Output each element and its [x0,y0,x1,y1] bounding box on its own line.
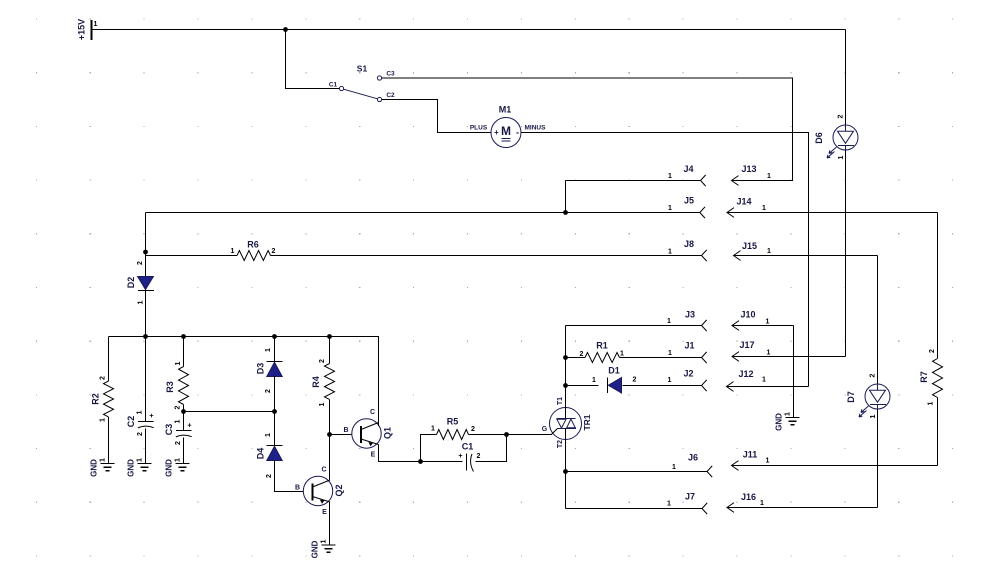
svg-text:-: - [516,128,519,138]
svg-text:1: 1 [870,414,877,418]
svg-text:2: 2 [471,426,475,433]
svg-text:1: 1 [94,21,98,28]
svg-text:2: 2 [175,405,182,409]
svg-text:1: 1 [766,319,770,326]
svg-text:1: 1 [592,377,596,384]
svg-text:1: 1 [838,155,845,159]
connector J16 [727,503,878,513]
svg-text:J13: J13 [741,164,756,174]
connector J15 [734,251,878,261]
svg-text:2: 2 [929,349,936,353]
svg-text:D4: D4 [256,448,266,460]
svg-text:1: 1 [137,458,144,462]
svg-text:1: 1 [175,419,182,423]
svg-text:D6: D6 [814,132,824,144]
connector J1 [702,352,707,363]
svg-text:D3: D3 [256,363,266,375]
svg-text:J15: J15 [742,241,757,251]
connector J4 [701,175,706,186]
svg-text:J1: J1 [684,341,694,351]
svg-text:J6: J6 [688,453,698,463]
svg-text:C1: C1 [329,82,338,89]
resistor R2 [108,337,110,382]
ground GND C3 [176,464,190,471]
svg-text:B: B [295,485,300,492]
switch S1 [339,76,381,102]
svg-text:1: 1 [137,410,144,414]
wire Q1 base [330,434,353,436]
svg-text:1: 1 [928,401,935,405]
resistor R1 [566,357,586,359]
svg-text:C2: C2 [126,416,136,428]
svg-text:C1: C1 [462,442,474,452]
svg-text:GND: GND [127,459,136,477]
resistor R3 [183,337,185,367]
wire J15 down to D7 [877,256,879,385]
led D7 [859,384,890,417]
svg-text:GND: GND [311,540,320,558]
transistor Q1 [352,419,381,448]
svg-text:1: 1 [231,248,235,255]
wire ground rail [109,337,379,423]
svg-text:C3: C3 [386,71,395,78]
svg-text:R4: R4 [311,376,321,388]
node R6 tap [143,250,148,255]
node R1 tap [563,355,568,360]
svg-text:1: 1 [767,248,771,255]
wire J4 drop [565,181,567,213]
svg-text:1: 1 [767,350,771,357]
connector J8 [702,250,707,261]
connector J3 [702,320,707,331]
connector J13 [732,176,793,186]
wire J4 lead [566,180,701,182]
svg-text:C: C [321,467,326,474]
svg-text:1: 1 [667,501,671,508]
wire J3 lead [566,325,702,327]
svg-text:D7: D7 [846,391,856,403]
svg-text:GND: GND [165,459,174,477]
capacitor C3 [176,430,192,432]
svg-text:D2: D2 [126,277,136,289]
svg-text:1: 1 [321,539,328,543]
connector J6 [707,466,712,477]
node TR1/J6 [563,469,568,474]
resistor R7 [933,359,943,398]
ground GND J10 [786,418,800,425]
svg-text:2: 2 [477,453,481,460]
wire J3 bus vertical [565,326,567,408]
node R5/C1 left [418,459,423,464]
svg-text:2: 2 [870,373,877,377]
wire TR1 T2 down [565,439,567,508]
wire S1 C3 to J13 [382,78,793,181]
svg-text:D1: D1 [608,366,620,376]
svg-text:G: G [542,426,548,433]
ground GND Q2 [322,545,336,552]
svg-text:C2: C2 [386,92,395,99]
svg-text:2: 2 [265,389,272,393]
svg-text:J16: J16 [741,492,756,502]
wire Q1 emitter to R5/C1 [379,445,421,462]
diode D2 [138,277,154,290]
wire +15V down to D6 [845,30,847,126]
svg-text:E: E [322,509,327,516]
svg-text:C: C [370,409,375,416]
resistor R6 [146,255,238,257]
wire J14 down to R7 [937,213,939,359]
node R5/C1 right [504,432,509,437]
svg-text:1: 1 [100,418,107,422]
svg-text:2: 2 [838,114,845,118]
wire R3 to D3/D4 node [184,411,275,413]
wire J10 to ground [793,326,795,418]
wire Q1 collector stub [378,422,380,426]
transistor Q2 [303,476,332,505]
connector J10 [732,321,794,331]
svg-text:1: 1 [319,402,326,406]
svg-text:1: 1 [175,361,182,365]
svg-text:1: 1 [667,318,671,325]
wire to S1 contact C1 [286,30,340,89]
svg-text:R1: R1 [596,341,608,351]
diode D3 [274,337,276,362]
wire Q2 collector stub [329,477,331,481]
svg-text:J8: J8 [684,239,694,249]
svg-text:R2: R2 [91,393,101,405]
svg-text:T2: T2 [557,440,564,448]
svg-text:+: + [494,128,499,137]
svg-text:2: 2 [100,376,107,380]
wire J7 lead [566,508,703,510]
connector J12 [727,382,809,392]
wire D7 to J16 [877,409,879,508]
connector J7 [702,503,707,514]
svg-text:Q1: Q1 [383,427,393,439]
svg-text:PLUS: PLUS [470,125,488,132]
svg-text:1: 1 [760,500,764,507]
svg-text:+: + [458,451,463,460]
svg-text:Q2: Q2 [334,484,344,496]
svg-text:+: + [187,421,192,430]
svg-text:1: 1 [766,458,770,465]
svg-text:1: 1 [785,412,792,416]
svg-text:1: 1 [265,348,272,352]
svg-text:1: 1 [100,458,107,462]
node D1 tap [563,383,568,388]
svg-text:R7: R7 [919,371,929,383]
svg-text:1: 1 [431,426,435,433]
resistor R4 [329,337,331,364]
connector J17 [732,352,846,362]
wire M1 MINUS to J12 [521,133,809,387]
connector J5 [700,207,705,218]
svg-text:J3: J3 [685,310,695,320]
svg-text:J7: J7 [685,492,695,502]
svg-text:J10: J10 [740,310,755,320]
svg-text:GND: GND [775,413,784,431]
svg-text:2: 2 [137,261,144,265]
wire Q2 emitter to ground [329,502,331,546]
svg-text:J11: J11 [743,450,758,460]
connector J14 [727,208,938,218]
svg-text:R5: R5 [447,417,459,427]
wire +15V rail [92,29,846,31]
svg-text:J12: J12 [738,369,753,379]
led D6 [827,125,858,158]
svg-text:+15V: +15V [77,19,87,40]
ground GND R2 [101,464,115,471]
motor M1 [491,118,521,148]
svg-text:+: + [149,411,154,420]
svg-text:J17: J17 [739,340,754,350]
diode D4 [274,412,276,446]
node rail R3 [181,334,186,339]
svg-text:1: 1 [762,377,766,384]
resistor R5 [421,435,437,462]
connector J2 [702,380,707,391]
svg-text:1: 1 [265,433,272,437]
capacitor C1 [421,461,463,463]
wire D6 to J17 [845,150,847,357]
svg-text:J2: J2 [683,369,693,379]
svg-text:1: 1 [668,173,672,180]
svg-text:TR1: TR1 [582,414,592,430]
svg-text:C3: C3 [164,424,174,436]
node R3/C3 tap [181,409,186,414]
svg-text:1: 1 [668,350,672,357]
svg-text:2: 2 [319,359,326,363]
svg-text:R3: R3 [165,381,175,393]
svg-text:1: 1 [668,205,672,212]
svg-text:1: 1 [668,377,672,384]
node rail D2/C2 [143,334,148,339]
wire gate to TR1 [507,434,552,436]
svg-text:E: E [371,452,376,459]
svg-text:2: 2 [272,248,276,255]
svg-text:1: 1 [175,458,182,462]
svg-text:J5: J5 [684,196,694,206]
node R4/Q1 base [327,432,332,437]
node rail R4 [327,334,332,339]
svg-text:1: 1 [762,205,766,212]
node rail D3 [272,334,277,339]
wire S1 C2 to M1 PLUS [382,100,491,133]
wire J5 line [146,212,700,214]
node J4/J5 junction [563,210,568,215]
connector J11 [732,461,938,471]
svg-text:GND: GND [90,459,99,477]
svg-text:T1: T1 [557,397,564,405]
svg-text:1: 1 [620,351,624,358]
node switch feed junction [283,27,288,32]
diode D1 [566,385,599,387]
triac TR1 [550,408,582,440]
wire left vertical through D2 [145,213,147,337]
wire J6 lead [566,471,708,473]
svg-text:2: 2 [580,351,584,358]
svg-text:1: 1 [668,249,672,256]
capacitor C2 [145,337,147,422]
svg-text:1: 1 [672,464,676,471]
svg-text:M: M [501,124,511,138]
svg-text:1: 1 [767,173,771,180]
ground GND C2 [138,464,152,471]
svg-text:MINUS: MINUS [525,125,547,132]
svg-text:1: 1 [138,300,145,304]
node D3/D4 junction [272,409,277,414]
svg-text:2: 2 [633,377,637,384]
svg-text:2: 2 [266,474,273,478]
svg-text:R6: R6 [247,240,259,250]
svg-text:S1: S1 [357,64,368,74]
svg-text:B: B [343,427,348,434]
svg-text:2: 2 [137,432,144,436]
svg-text:J14: J14 [736,197,751,207]
svg-text:M1: M1 [499,105,512,115]
power +15V [91,20,93,40]
svg-text:J4: J4 [683,164,693,174]
svg-text:2: 2 [175,441,182,445]
